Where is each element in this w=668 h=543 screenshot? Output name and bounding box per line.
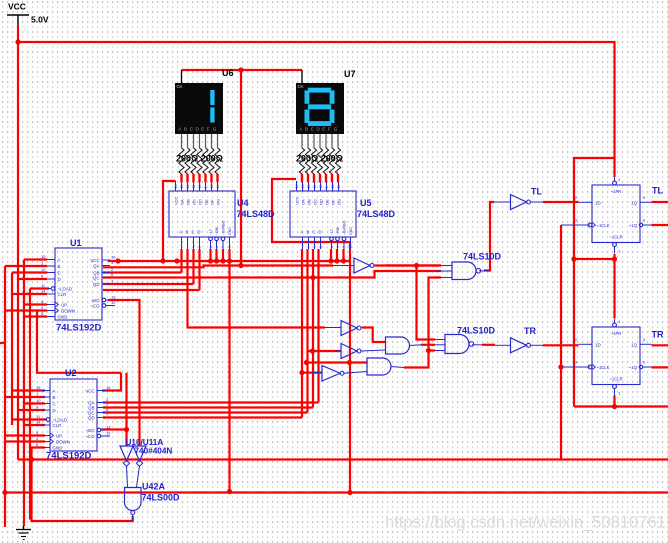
svg-text:E: E — [322, 126, 325, 131]
svg-text:TR: TR — [524, 326, 536, 336]
wire U2 pin A row — [12, 389, 45, 391]
svg-text:U6: U6 — [222, 68, 234, 78]
svg-text:16: 16 — [295, 185, 299, 189]
wire left bus vertical x=30 — [29, 289, 31, 520]
AND gate U6A — [386, 337, 422, 354]
7-segment display U6 — [175, 83, 223, 134]
svg-text:1Q: 1Q — [631, 342, 637, 347]
svg-text:CK: CK — [177, 84, 183, 89]
junction at (302,372.6) — [299, 370, 304, 375]
svg-text:15: 15 — [210, 185, 214, 189]
wire U2 QC row to column x=307.5 — [103, 411, 308, 413]
svg-text:GND: GND — [228, 227, 232, 235]
svg-text:~1PR: ~1PR — [611, 189, 622, 194]
ground symbol — [16, 526, 31, 540]
wire U2 QA row to column x=318.5 — [103, 401, 319, 403]
wire U6 CK pin — [181, 70, 183, 83]
flip-flop U8 (TL) — [575, 177, 652, 254]
wire NAND U10 output to TR inverter input — [482, 344, 511, 347]
wire U4 input D column — [198, 249, 200, 290]
svg-text:QC: QC — [93, 276, 100, 281]
inverter U16A 7404N — [120, 446, 133, 487]
svg-text:14: 14 — [41, 289, 46, 294]
svg-text:OF: OF — [331, 199, 336, 205]
svg-text:OF: OF — [210, 199, 215, 205]
svg-text:4: 4 — [343, 245, 345, 249]
label U5 value — [357, 209, 396, 219]
svg-text:C: C — [53, 402, 56, 407]
svg-text:14: 14 — [36, 420, 41, 425]
junction at (229.5,491.5) — [227, 489, 232, 494]
flip-flop U17 (TR) — [575, 319, 652, 396]
inverter U12A — [325, 321, 362, 336]
wire VCC rail row y=261 under decoders — [108, 260, 350, 262]
wire U2 pin B row — [5, 396, 45, 398]
wire U4 aux pin stubs to VCC rail — [211, 249, 224, 261]
svg-text:11: 11 — [313, 185, 317, 189]
label 7404N pair — [135, 447, 173, 456]
svg-text:VCC: VCC — [8, 2, 26, 12]
junction at (216.5,261) — [214, 258, 219, 263]
resistor bank R1-R7 200 Ohm under U6 — [179, 134, 220, 181]
wire U1 DOWN row — [5, 309, 47, 311]
svg-text:OE: OE — [325, 199, 330, 205]
wire U2 DOWN row — [5, 440, 45, 442]
svg-text:F: F — [328, 126, 331, 131]
wire U4 input C column — [192, 249, 194, 284]
svg-text:OD: OD — [319, 199, 324, 205]
wire U1 DOWN row to U2 area link — [37, 311, 121, 373]
svg-text:~1CLR: ~1CLR — [609, 377, 622, 382]
junction at (18,42) — [15, 39, 20, 44]
wire U4 input A column — [180, 249, 182, 273]
wire rail y=408 to right edge — [574, 405, 668, 407]
wire inverter U9 output to NAND U3 input 1 — [375, 264, 442, 266]
svg-text:6: 6 — [199, 245, 201, 249]
label TR left — [524, 326, 536, 336]
wire inverter U14 input row y=372 — [302, 372, 322, 374]
svg-text:OC: OC — [313, 199, 318, 205]
svg-text:VCC: VCC — [295, 196, 300, 205]
wire U17 ~1Q output to right edge — [652, 366, 668, 368]
svg-text:D: D — [53, 408, 56, 413]
svg-text:1: 1 — [187, 245, 189, 249]
svg-text:U2: U2 — [65, 368, 77, 378]
wire U4 VCC feed jog — [163, 181, 176, 261]
svg-text:B: B — [184, 126, 187, 131]
svg-text:TL: TL — [531, 187, 542, 197]
svg-text:G: G — [334, 126, 338, 131]
svg-text:2: 2 — [314, 245, 316, 249]
wire U5 input A column — [301, 249, 303, 418]
svg-text:TR: TR — [652, 329, 664, 339]
svg-text:11: 11 — [192, 185, 196, 189]
wire U1 ~LOAD row — [30, 287, 49, 289]
svg-text:7: 7 — [302, 245, 304, 249]
svg-text:~LOAD: ~LOAD — [53, 418, 68, 423]
wire resistor-to-U5 red stubs — [302, 174, 338, 183]
wire resistor-to-U4 red stubs — [182, 174, 218, 183]
label 74LS00D — [142, 493, 181, 503]
svg-text:13: 13 — [111, 295, 116, 300]
wire left bus vertical x=24 — [23, 260, 25, 527]
label U2 — [65, 368, 77, 378]
svg-text:U1: U1 — [70, 238, 82, 248]
svg-text:1D: 1D — [595, 342, 601, 347]
label TR right — [652, 329, 664, 339]
svg-text:A: A — [53, 389, 56, 394]
wire U1 QD row — [103, 283, 194, 285]
svg-text:10: 10 — [41, 267, 46, 272]
svg-text:~CO: ~CO — [85, 434, 95, 439]
svg-text:74LS10D: 74LS10D — [457, 326, 496, 336]
svg-text:13: 13 — [180, 185, 184, 189]
junction at (118,261) — [115, 258, 120, 263]
AND gate U15A — [367, 358, 404, 375]
label U42A — [142, 481, 166, 491]
svg-text:~1CLR: ~1CLR — [609, 235, 622, 240]
junction at (223,261) — [220, 258, 225, 263]
svg-text:D: D — [198, 230, 201, 235]
svg-text:D: D — [319, 230, 322, 235]
junction at (428.5,350.5) — [426, 348, 431, 353]
svg-text:14: 14 — [216, 185, 220, 189]
power VCC symbol with 5.0V label — [7, 2, 49, 27]
svg-text:15: 15 — [331, 185, 335, 189]
wire U1 pin A row — [24, 258, 47, 260]
label TL left — [531, 187, 542, 197]
junction at (614.5,406.5) — [612, 404, 617, 409]
svg-text:13: 13 — [301, 185, 305, 189]
svg-text:16: 16 — [111, 255, 116, 260]
svg-text:OG: OG — [216, 199, 221, 205]
svg-text:12: 12 — [106, 431, 111, 436]
wire column x=126.5 down to inverter U16A — [125, 373, 127, 446]
junction at (241,70) — [238, 67, 243, 72]
resistor bank R8-R14 200 Ohm under U7 — [299, 134, 340, 181]
counter U2 74LS192D — [36, 379, 111, 451]
svg-text:16: 16 — [106, 385, 111, 390]
svg-text:5: 5 — [216, 245, 218, 249]
decoder U5 74LS48D — [290, 181, 356, 249]
wire U1 QA row to inverter U9 input — [103, 266, 333, 268]
svg-text:OG: OG — [337, 199, 342, 205]
svg-text:DOWN: DOWN — [56, 440, 70, 445]
svg-text:74LS48D: 74LS48D — [357, 209, 396, 219]
inverter U19A TR buffer — [511, 338, 544, 353]
svg-text:~BI/RBO: ~BI/RBO — [343, 221, 347, 235]
wire VCC net: vertical from VCC symbol down left side to bottom rail — [17, 26, 19, 460]
svg-text:~LT: ~LT — [209, 228, 213, 235]
wire U5 input C column — [312, 249, 314, 408]
wire U8 1Q output to right edge TL — [652, 201, 668, 203]
label U1 value — [56, 323, 102, 334]
wire TR inverter output to U17 flip-flop 1D — [543, 344, 579, 346]
junction at (312.5,351) — [310, 348, 315, 353]
junction at (210.5,261) — [208, 258, 213, 263]
svg-text:DOWN: DOWN — [61, 309, 75, 314]
wire inverter U13 input row y=351 — [308, 350, 342, 352]
svg-text:~BO: ~BO — [91, 298, 100, 303]
label TL right — [652, 186, 663, 196]
wire U8 FF clock column x=561 down to bottom rail — [560, 225, 562, 460]
junction at (306.5,362.5) — [304, 360, 309, 365]
wire U1 CLR row — [12, 293, 47, 295]
svg-text:~1Q: ~1Q — [629, 223, 638, 228]
wire stub left edge y=343 — [0, 342, 5, 344]
junction at (349.5,362.5) — [347, 360, 352, 365]
svg-text:1: 1 — [308, 245, 310, 249]
svg-text:OC: OC — [192, 199, 197, 205]
junction at (561,367) — [558, 364, 563, 369]
svg-text:B: B — [307, 230, 310, 235]
svg-text:8: 8 — [229, 245, 231, 249]
svg-text:~LT: ~LT — [330, 228, 334, 235]
svg-text:74LS192D: 74LS192D — [56, 323, 102, 334]
svg-text:C: C — [313, 230, 316, 235]
svg-text:B: B — [53, 395, 56, 400]
wire U2 VCC feed — [102, 373, 121, 391]
svg-text:U7: U7 — [344, 69, 356, 79]
wire AND U15 input row y=362.5 — [308, 361, 368, 363]
svg-text:UP: UP — [56, 434, 62, 439]
svg-text:15: 15 — [41, 254, 46, 259]
svg-text:4: 4 — [222, 245, 224, 249]
junction at (241,265.5) — [238, 263, 243, 268]
inverter U13A — [335, 344, 386, 359]
wire U42A output return loop — [32, 460, 133, 522]
svg-text:E: E — [201, 126, 204, 131]
svg-text:13: 13 — [106, 425, 111, 430]
svg-text:QA: QA — [93, 264, 99, 269]
label U4 — [237, 198, 249, 208]
wire left bus vertical x=12 — [11, 273, 13, 426]
inverter U9A — [333, 258, 374, 273]
junction at (163,261) — [160, 258, 165, 263]
wire U2 QB row to column x=313 — [103, 406, 313, 408]
label 74LS10D top — [463, 251, 502, 261]
NAND gate U10A 74LS10D — [435, 335, 482, 354]
wire U1 ~BO to inverter U11A input — [108, 300, 140, 446]
svg-text:10: 10 — [36, 398, 41, 403]
wire U7 CK pin — [301, 70, 303, 83]
svg-text:9: 9 — [325, 187, 329, 189]
svg-text:74LS48D: 74LS48D — [237, 209, 276, 219]
wire U8 ~1CLR to U17 ~2PR column x=616 — [613, 254, 615, 319]
junction at (337,261) — [334, 258, 339, 263]
svg-text:VCC: VCC — [174, 196, 179, 205]
7-segment display U7 — [296, 83, 344, 134]
svg-text:OE: OE — [204, 199, 209, 205]
NAND gate U3A 74LS10D — [435, 262, 490, 280]
svg-text:A: A — [58, 258, 61, 263]
wire U2 ~LOAD row — [12, 418, 47, 420]
svg-text:~RBI: ~RBI — [336, 227, 340, 235]
wire column x=241 from display rail down to QA row — [240, 70, 242, 266]
junction at (574,259) — [571, 256, 576, 261]
svg-text:G: G — [213, 126, 217, 131]
wire U17 FF clock stub — [561, 366, 590, 368]
svg-text:~1CLK: ~1CLK — [597, 223, 610, 228]
wire U4 GND column x=229.5 down to bottom rail — [228, 249, 230, 492]
svg-text:2: 2 — [193, 245, 195, 249]
svg-text:CK: CK — [298, 84, 304, 89]
svg-text:A: A — [301, 230, 304, 235]
wire jog from (616,155.7) left to x=573 vertical down to y=408 rail — [574, 158, 615, 407]
junction at (177,261) — [174, 258, 179, 263]
svg-text:9: 9 — [204, 187, 208, 189]
svg-text:B: B — [58, 264, 61, 269]
wire top VCC rail from (18,42) to right side and down to U8 flip-flop PR — [18, 42, 615, 177]
svg-text:16: 16 — [174, 185, 178, 189]
wire U1 QC row with step up to NAND U3 input 2 — [103, 271, 441, 278]
svg-text:U4: U4 — [237, 198, 249, 208]
junction at (5,492.5) — [2, 490, 7, 495]
wire left bus vertical x=5 — [4, 266, 6, 527]
wire U2 UP row — [5, 434, 45, 436]
svg-text:~BI/RBO: ~BI/RBO — [222, 221, 226, 235]
wire U1 pin D row — [18, 278, 47, 280]
svg-text:CLR: CLR — [53, 423, 62, 428]
svg-text:GND: GND — [349, 227, 353, 235]
wire display clock rail y=70 between U6 and U7 — [182, 69, 303, 71]
junction at (416.5,265.5) — [414, 263, 419, 268]
svg-text:8: 8 — [350, 245, 352, 249]
wire U17 1Q output to right edge TR — [652, 344, 668, 346]
svg-text:~LOAD: ~LOAD — [58, 287, 73, 292]
svg-text:A: A — [180, 230, 183, 235]
svg-text:5.0V: 5.0V — [31, 15, 49, 25]
wire AND U15 output column x=428.5 up to NAND U10 input 3 — [404, 278, 441, 368]
watermark — [385, 514, 666, 532]
svg-text:10: 10 — [198, 185, 202, 189]
svg-text:15: 15 — [36, 385, 41, 390]
junction at (343.5,261) — [341, 258, 346, 263]
svg-text:OA: OA — [301, 199, 306, 205]
svg-text:~CO: ~CO — [90, 304, 100, 309]
svg-text:QD: QD — [88, 416, 95, 421]
wire U1 GND row — [24, 315, 47, 317]
wire row y=290 — [103, 289, 200, 291]
wire U8 FF clock stub — [561, 224, 590, 226]
decoder U4 74LS48D — [169, 181, 235, 249]
svg-text:1Q: 1Q — [631, 200, 637, 205]
svg-text:~1PR: ~1PR — [611, 331, 622, 336]
wire inverter U12 output down to AND U6A input — [362, 328, 386, 343]
svg-text:14: 14 — [337, 185, 341, 189]
svg-text:~1CLK: ~1CLK — [597, 365, 610, 370]
label resistors 200Ohm group 2 — [296, 154, 343, 164]
wire U2 pin C row — [24, 402, 45, 404]
svg-text:~BO: ~BO — [86, 428, 95, 433]
svg-text:VCC: VCC — [85, 389, 94, 394]
wire TL inverter output to U8 flip-flop 1D — [543, 201, 579, 203]
svg-text:200Ω 200Ω: 200Ω 200Ω — [296, 154, 343, 164]
wire U5 input B column — [306, 249, 308, 413]
wire U8 ~1Q output to right edge — [652, 224, 668, 226]
label U5 — [360, 198, 372, 208]
svg-text:U42A: U42A — [142, 481, 166, 491]
svg-text:D: D — [58, 277, 61, 282]
label U16A U11A — [126, 438, 164, 447]
wire NAND U3 output up to TL inverter input — [484, 202, 494, 271]
inverter U14A — [312, 366, 367, 382]
svg-text:200Ω 200Ω: 200Ω 200Ω — [176, 154, 223, 164]
label U2 value — [46, 451, 92, 462]
junction at (126.5,429.5) — [124, 427, 129, 432]
svg-text:OB: OB — [307, 199, 312, 205]
junction at (31.5,459.5) — [29, 457, 34, 462]
svg-text:U5: U5 — [360, 198, 372, 208]
svg-text:B: B — [305, 126, 308, 131]
inverter U11A 7404N — [133, 446, 146, 487]
svg-text:B: B — [186, 230, 189, 235]
svg-text:OA: OA — [180, 199, 185, 205]
svg-text:OD: OD — [198, 199, 203, 205]
label 74LS10D bottom — [457, 326, 496, 336]
svg-text:https://blog.csdn.net/weixin_5: https://blog.csdn.net/weixin_50810761 — [385, 514, 666, 532]
inverter U18A TL buffer — [494, 195, 543, 210]
junction at (614.5,259) — [612, 256, 617, 261]
svg-text:UP: UP — [61, 303, 67, 308]
svg-text:~1Q: ~1Q — [629, 365, 638, 370]
svg-text:OB: OB — [186, 199, 191, 205]
svg-text:6: 6 — [320, 245, 322, 249]
label U1 — [70, 238, 82, 248]
wire U1 pin B row — [5, 265, 47, 267]
wire U5 input D column — [317, 249, 319, 403]
wire U1 UP row — [24, 303, 47, 305]
wire U1 QB row — [103, 271, 182, 273]
wire U5 VCC feed jog and GND column x=350 — [272, 179, 350, 493]
svg-text:12: 12 — [111, 300, 116, 305]
svg-text:F: F — [207, 126, 210, 131]
svg-text:74LS00D: 74LS00D — [142, 493, 181, 503]
wire U17 CLR to rail y=408 — [613, 396, 615, 407]
svg-text:VCC: VCC — [90, 258, 99, 263]
wire junction column x=416.5 down to NAND U10 input 1 — [417, 266, 436, 340]
wire NAND U10 input 3 tap — [429, 349, 436, 351]
svg-text:7: 7 — [181, 245, 183, 249]
svg-text:1D: 1D — [595, 200, 601, 205]
label U7 — [344, 69, 356, 79]
wire AND U6A output to NAND U10 input 2 — [421, 344, 435, 346]
svg-text:QD: QD — [93, 282, 100, 287]
junction at (229.5,261) — [227, 258, 232, 263]
svg-text:C: C — [192, 230, 195, 235]
wire U2 CLR row — [24, 424, 45, 426]
junction at (331,261) — [328, 258, 333, 263]
svg-text:C: C — [58, 271, 61, 276]
NAND gate U42A 74LS00D — [125, 488, 142, 522]
svg-text:~RBI: ~RBI — [215, 227, 219, 235]
svg-text:5: 5 — [337, 245, 339, 249]
wire U5 aux pin stubs to VCC rail — [331, 249, 344, 261]
junction at (350,492.5) — [347, 490, 352, 495]
svg-text:74LS10D: 74LS10D — [463, 251, 502, 261]
svg-text:12: 12 — [307, 185, 311, 189]
wire U1 pin C row — [12, 271, 47, 273]
svg-text:10: 10 — [319, 185, 323, 189]
svg-text:CLR: CLR — [58, 292, 67, 297]
svg-text:74LS192D: 74LS192D — [46, 451, 92, 462]
label resistors 200Ohm group 1 — [176, 154, 223, 164]
wire U2 GND row — [32, 448, 46, 460]
wire U2 QD row to column x=302 — [103, 416, 302, 418]
label U4 value — [237, 209, 276, 219]
wire U8 CLR tee — [574, 258, 615, 260]
svg-text:740#404N: 740#404N — [135, 447, 173, 456]
